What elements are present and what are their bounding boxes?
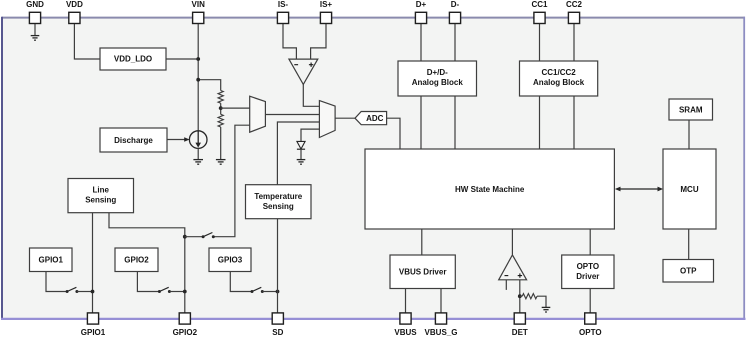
pin D+: [415, 0, 426, 24]
switch S4 (line sense enable): [202, 233, 215, 239]
svg-text:IS-: IS-: [278, 0, 289, 9]
pin SD: [272, 313, 283, 337]
svg-text:SRAM: SRAM: [679, 105, 703, 114]
block GPIO2: [115, 248, 158, 272]
svg-text:VDD: VDD: [66, 0, 83, 9]
svg-text:HW State Machine: HW State Machine: [455, 185, 525, 194]
wire switch S2 to GPIO2 net: [169, 291, 184, 293]
pin CC1: [531, 0, 548, 24]
block GPIO3: [209, 248, 251, 272]
block Temperature Sensing: [246, 185, 312, 219]
block HW State Machine: [365, 149, 614, 229]
wire GPIO1 block to switch S1: [46, 272, 67, 292]
svg-text:IS+: IS+: [320, 0, 333, 9]
mux M2: [319, 101, 335, 138]
wire VDD_LDO output to VIN net: [166, 58, 198, 60]
svg-text:Discharge: Discharge: [114, 136, 153, 145]
block Line Sensing: [68, 179, 134, 213]
resistor R1 (divider top): [218, 91, 223, 104]
junction VIN/VDD_LDO output: [196, 57, 200, 61]
ground symbol near DET: [542, 307, 551, 312]
switch S1: [66, 287, 79, 293]
block OPTO Driver: [562, 255, 614, 289]
ADC block: [355, 112, 387, 125]
pin IS-: [277, 0, 288, 24]
wire HW State Machine to VBUS Driver: [421, 229, 423, 255]
wire divider tap to mux M1 input: [221, 107, 250, 109]
wire Discharge output to current source: [167, 139, 187, 141]
svg-text:Sensing: Sensing: [263, 202, 294, 211]
wire switch S3 to SD net: [262, 291, 277, 293]
wire D+ pin to analog block: [420, 23, 422, 61]
svg-text:GPIO1: GPIO1: [39, 256, 64, 265]
wire resistor R3 to ground: [537, 296, 546, 307]
wire SRAM to MCU: [688, 120, 690, 149]
wire junction to switch S4: [185, 236, 203, 238]
wire Line Sensing to GPIO1 pin: [92, 213, 94, 313]
block MCU: [663, 149, 716, 229]
switch S2: [158, 287, 171, 293]
wire comparator inverting stub: [505, 280, 507, 290]
arrowhead discharge to current source: [184, 137, 189, 142]
svg-text:MCU: MCU: [680, 185, 698, 194]
wire current source to ground: [197, 148, 199, 159]
wire Line Sensing to GPIO2 net: [109, 213, 185, 313]
svg-text:GPIO3: GPIO3: [218, 256, 243, 265]
ground symbol at GND pin: [31, 36, 40, 41]
pin VBUS: [394, 313, 417, 337]
wire GPIO2 block to switch S2: [137, 272, 159, 292]
svg-text:CC1: CC1: [531, 0, 548, 9]
wire comparator non-inverting input to DET pin: [519, 280, 521, 313]
svg-text:GPIO1: GPIO1: [81, 328, 106, 337]
wire CC2 pin to analog block: [573, 23, 575, 61]
pin GPIO1: [81, 313, 106, 337]
op-amp U1 current sense: [289, 59, 318, 84]
wire VDD pin to VDD_LDO input: [74, 23, 100, 59]
wire IS- pin to op-amp inverting input: [283, 23, 296, 59]
wire CC1 analog block to HW State Machine: [539, 96, 541, 149]
svg-text:VIN: VIN: [192, 0, 206, 9]
svg-text:Analog Block: Analog Block: [412, 78, 464, 87]
svg-text:Analog Block: Analog Block: [533, 78, 585, 87]
wire ADC output to HW State Machine: [387, 118, 400, 149]
svg-text:SD: SD: [272, 328, 283, 337]
svg-text:GPIO2: GPIO2: [124, 256, 149, 265]
block GPIO1: [30, 248, 73, 272]
wire IS+ pin to op-amp non-inverting input: [311, 23, 326, 59]
wire VBUS Driver to VBUS_G pin: [440, 289, 442, 314]
wire Temperature Sensing to SD pin: [277, 219, 279, 313]
wire VIN branch to resistor divider: [198, 80, 221, 91]
pin IS+: [320, 0, 333, 24]
pin VBUS_G: [425, 313, 458, 337]
diode D1: [297, 141, 305, 149]
junction GPIO1 net: [91, 290, 95, 294]
wire OPTO Driver to OPTO pin: [589, 289, 591, 314]
svg-text:ADC: ADC: [366, 114, 384, 123]
svg-text:VBUS_G: VBUS_G: [425, 328, 458, 337]
junction DET net: [518, 294, 522, 298]
pin D-: [449, 0, 460, 24]
wire op-amp output to mux M2: [303, 84, 319, 106]
svg-text:VBUS: VBUS: [394, 328, 417, 337]
wire HW State Machine to OPTO Driver: [589, 229, 591, 255]
svg-text:Driver: Driver: [576, 272, 599, 281]
block CC1/CC2 Analog Block: [520, 61, 598, 96]
block Discharge: [100, 128, 167, 152]
wire mux M2 input to diode D1: [301, 129, 319, 141]
wire HW State Machine to comparator U2: [511, 229, 513, 255]
svg-text:D+/D-: D+/D-: [427, 68, 448, 77]
wire CC1 pin to analog block: [539, 23, 541, 61]
wire mux M1 output to mux M2: [265, 114, 319, 116]
switch S3: [251, 287, 264, 293]
wire switch S1 to GPIO1 net: [77, 291, 93, 293]
comparator U2 (DET): [499, 255, 527, 280]
junction SD net: [276, 290, 280, 294]
svg-text:D-: D-: [451, 0, 460, 9]
pin VIN: [192, 0, 206, 24]
pin GND: [26, 0, 44, 24]
wire VBUS Driver to VBUS pin: [405, 289, 407, 314]
wire GPIO3 block to switch S3: [230, 272, 252, 292]
block D+/D- Analog Block: [398, 61, 477, 96]
wire diode D1 to ground: [300, 149, 302, 159]
wire Temperature Sensing to mux M2: [277, 122, 319, 185]
svg-text:VDD_LDO: VDD_LDO: [114, 55, 152, 64]
svg-text:Temperature: Temperature: [254, 192, 302, 201]
wire D- pin to analog block: [454, 23, 456, 61]
junction GPIO2 net lower: [183, 290, 187, 294]
pin DET: [512, 313, 528, 337]
ground symbol under current source: [193, 160, 203, 165]
current source I1 (circle with down arrow): [189, 131, 207, 149]
svg-text:OPTO: OPTO: [577, 262, 600, 271]
svg-text:OPTO: OPTO: [579, 328, 602, 337]
wire R2 to ground: [220, 127, 222, 159]
wire MCU to OTP: [688, 229, 690, 260]
wire between divider resistors: [220, 103, 222, 114]
resistor R3 (DET pulldown): [522, 294, 537, 299]
wire DET junction to resistor R3: [520, 295, 522, 297]
pin VDD: [66, 0, 83, 24]
wire GND pin to ground: [34, 23, 36, 35]
block VDD_LDO: [100, 48, 166, 70]
ground symbol under divider: [216, 160, 226, 165]
wire CC2 analog block to HW State Machine: [573, 96, 575, 149]
svg-text:OTP: OTP: [680, 267, 697, 276]
svg-text:Sensing: Sensing: [85, 196, 116, 205]
svg-text:GPIO2: GPIO2: [173, 328, 198, 337]
wire switch S4 to mux M1 input: [213, 125, 249, 237]
svg-text:CC1/CC2: CC1/CC2: [541, 68, 576, 77]
wire VIN net vertical: [197, 23, 199, 131]
wire D- analog block to HW State Machine: [454, 96, 456, 149]
junction GPIO2 net / switch S4: [183, 235, 187, 239]
wire HW State Machine to MCU (bidirectional arrow): [615, 187, 663, 192]
svg-text:GND: GND: [26, 0, 44, 9]
pin CC2: [566, 0, 583, 24]
wire D+ analog block to HW State Machine: [420, 96, 422, 149]
block VBUS Driver: [390, 255, 455, 289]
block SRAM: [669, 99, 713, 120]
pin OPTO: [579, 313, 602, 337]
wire mux M2 output to ADC: [335, 117, 355, 119]
svg-text:VBUS Driver: VBUS Driver: [399, 268, 447, 277]
svg-text:DET: DET: [512, 328, 528, 337]
junction divider tap: [219, 106, 223, 110]
svg-text:CC2: CC2: [566, 0, 583, 9]
svg-text:Line: Line: [93, 186, 110, 195]
pin GPIO2: [173, 313, 198, 337]
block OTP: [663, 260, 714, 283]
svg-text:D+: D+: [416, 0, 427, 9]
junction VIN branch: [196, 78, 200, 82]
resistor R2 (divider bottom): [218, 114, 223, 127]
mux M1: [250, 96, 266, 132]
ground symbol under diode D1: [297, 160, 306, 165]
